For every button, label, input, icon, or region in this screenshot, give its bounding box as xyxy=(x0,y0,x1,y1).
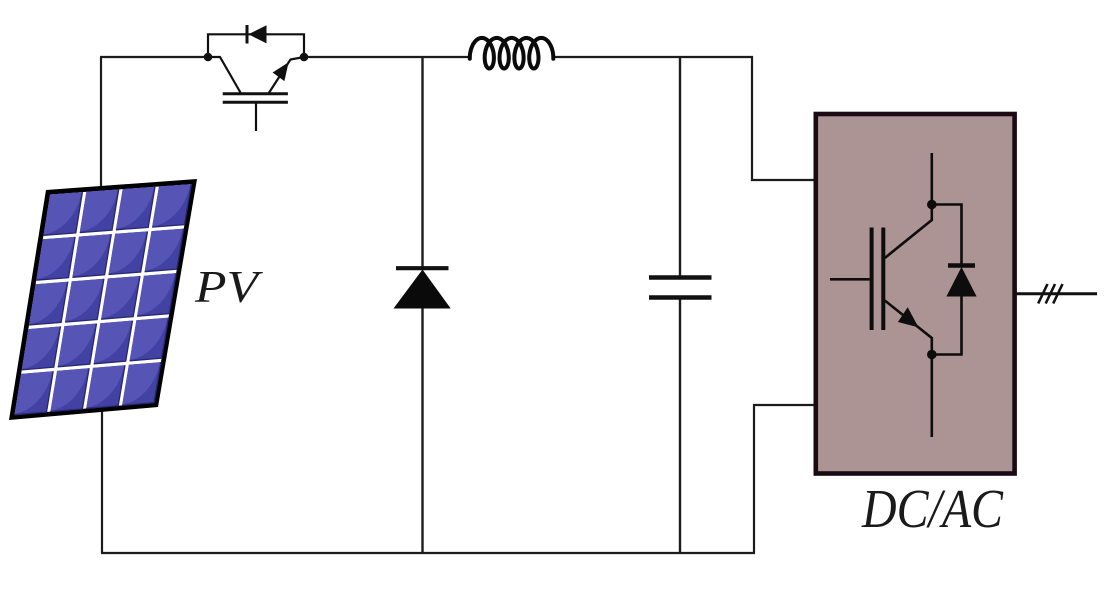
inductor L1 xyxy=(470,38,554,69)
wire: top rail left segment xyxy=(100,56,208,58)
wire: D1 loop xyxy=(208,34,304,57)
D1 cathode bar xyxy=(246,25,249,44)
wire: Q2 collector wire xyxy=(885,153,932,258)
Q2 emitter arrow xyxy=(898,307,919,327)
wire: Q1 collector lead xyxy=(208,57,241,94)
Q1 emitter arrow xyxy=(273,62,289,81)
D3 triangle xyxy=(946,267,976,297)
PV cells xyxy=(15,184,192,415)
wire: C1 top lead xyxy=(679,56,681,277)
transistor Q2 (IGBT in inverter) xyxy=(830,153,932,437)
C1 top plate xyxy=(649,275,712,279)
diode D3 (freewheeling in inverter) xyxy=(932,205,977,355)
node: inverter bottom junction xyxy=(927,350,937,360)
diode D2 (freewheeling) xyxy=(394,56,451,554)
wire: Q2 gate lead xyxy=(830,278,870,281)
D2 triangle xyxy=(394,270,451,309)
wire: D3 branch xyxy=(932,205,962,355)
node: inverter top junction xyxy=(927,200,937,210)
wire: C1 bottom lead xyxy=(679,297,681,554)
wire: left vertical PV top xyxy=(100,57,102,200)
Q1 body bar xyxy=(223,92,288,95)
D1 triangle xyxy=(249,25,267,43)
wire: Q1 emitter lead xyxy=(269,57,305,94)
wire: D2 bottom lead xyxy=(421,305,423,554)
diode D1 (antiparallel on Q1) xyxy=(208,25,304,57)
wire: Q2 emitter wire xyxy=(885,301,932,438)
three-phase slashes xyxy=(1038,284,1062,304)
wire: top rail right segment xyxy=(552,57,817,180)
Q2 body bar xyxy=(881,228,885,331)
wire: top rail middle segment xyxy=(304,56,469,58)
transistor Q1 (IGBT switch) xyxy=(208,57,304,131)
wire: D2 top lead xyxy=(421,56,423,268)
Q2 gate bar xyxy=(870,228,874,331)
C1 bottom plate xyxy=(649,295,712,299)
capacitor C1 xyxy=(649,56,712,554)
PV cell highlights xyxy=(15,184,191,413)
wire: Q1 gate lead xyxy=(255,103,257,131)
svg-text:DC/AC: DC/AC xyxy=(861,478,1004,539)
wire: AC output xyxy=(1015,292,1097,295)
wire: bottom rail xyxy=(101,405,817,553)
PV frame xyxy=(9,179,197,420)
PV inner white xyxy=(15,184,192,415)
wire: left vertical PV bottom xyxy=(101,400,103,553)
inverter block U1 xyxy=(816,114,1015,474)
svg-text:PV: PV xyxy=(194,261,264,312)
node: Q1 right junction xyxy=(300,53,309,62)
D2 cathode bar xyxy=(396,266,449,270)
node: Q1 left junction xyxy=(204,53,213,62)
Q1 gate bar xyxy=(223,101,288,104)
PV cell edges xyxy=(15,184,192,415)
solar panel PV xyxy=(9,179,197,420)
D3 cathode bar xyxy=(948,263,975,267)
